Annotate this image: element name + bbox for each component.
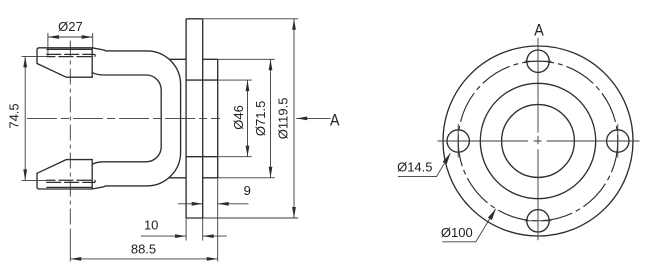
dim Ø27 right extension bbox=[92, 33, 94, 48]
hub bottom edge (Ø71.5) bbox=[203, 177, 218, 179]
dim 10 left segment bbox=[141, 235, 186, 237]
extension hub right edge down bbox=[217, 178, 219, 262]
dim Ø71.5 bottom extension bbox=[218, 177, 275, 179]
dim 9 left segment bbox=[178, 203, 203, 205]
bottom prong upper chamfer and boss top edge bbox=[37, 160, 92, 174]
dim 10 right segment bbox=[203, 235, 227, 237]
vertical bore centerline bbox=[69, 41, 71, 232]
svg-text:10: 10 bbox=[144, 218, 158, 233]
arrow 9 left bbox=[192, 202, 203, 206]
arrow Ø46 bottom bbox=[246, 146, 250, 157]
dim Ø119.5 top extension bbox=[203, 18, 299, 20]
top prong bore slot lines bbox=[46, 54, 95, 56]
arrow 74.5 top bbox=[23, 56, 27, 67]
svg-text:88.5: 88.5 bbox=[131, 242, 156, 257]
leader Ø14.5 bbox=[398, 153, 450, 176]
dim 9 right segment bbox=[218, 203, 249, 205]
arrow 10 left bbox=[175, 234, 186, 238]
arrow Ø27 left bbox=[48, 35, 59, 39]
right hole vertical tick bbox=[617, 124, 619, 158]
dim Ø27 left extension bbox=[47, 33, 49, 57]
dim Ø46 top extension bbox=[218, 79, 252, 81]
yoke inner contour (arm inner edges and inner bend) bbox=[92, 73, 161, 165]
arrow Ø71.5 bottom bbox=[269, 167, 273, 178]
flange plate top edge bbox=[186, 18, 203, 20]
bore circle Ø46 bbox=[502, 105, 575, 178]
Ø46 top silhouette line bbox=[186, 79, 218, 81]
extension plate left edge down bbox=[185, 218, 187, 241]
arrow leader Ø100 bbox=[488, 209, 496, 221]
svg-text:74.5: 74.5 bbox=[6, 103, 21, 128]
yoke outer contour (top prong, arm bend, bottom prong) bbox=[37, 48, 181, 189]
outer flange circle Ø119.5 bbox=[443, 46, 633, 236]
dim Ø71.5 line bbox=[270, 59, 272, 178]
arrow Ø46 top bbox=[246, 80, 250, 91]
dim Ø46 line bbox=[247, 80, 249, 157]
hub top edge (Ø71.5) bbox=[203, 58, 218, 60]
svg-text:Ø14.5: Ø14.5 bbox=[397, 159, 432, 174]
svg-text:9: 9 bbox=[244, 183, 251, 198]
svg-text:A: A bbox=[534, 20, 544, 39]
bottom prong boss right face bbox=[91, 160, 93, 189]
arrow Ø27 right bbox=[82, 35, 93, 39]
bottom prong bore slot lines bbox=[46, 180, 95, 182]
hub left silhouette top (Ø71.5 behind arm) bbox=[169, 58, 186, 60]
dim 74.5 line bbox=[24, 56, 26, 180]
right view vertical centerline bbox=[537, 38, 539, 241]
centerlines of left view bbox=[27, 41, 220, 232]
bolt circle Ø100 dashed bbox=[458, 61, 618, 221]
arrow 10 right bbox=[203, 234, 214, 238]
arrow section A bbox=[296, 117, 307, 121]
extension bore centerline down bbox=[69, 231, 71, 262]
arrow leader Ø14.5 bbox=[443, 153, 451, 165]
top prong bearing cup inner edge line bbox=[46, 48, 92, 50]
arrowheads bbox=[23, 19, 307, 261]
arrow Ø119.5 top bbox=[292, 19, 296, 30]
svg-text:Ø100: Ø100 bbox=[441, 225, 473, 240]
svg-text:Ø27: Ø27 bbox=[58, 19, 83, 34]
extension plate right edge down bbox=[202, 218, 204, 241]
hub right face bbox=[217, 59, 219, 178]
Ø46 bottom silhouette line bbox=[186, 156, 218, 158]
top prong lower chamfer and boss bottom edge bbox=[37, 64, 92, 78]
dim Ø46 bottom extension bbox=[218, 156, 252, 158]
right view horizontal centerline bbox=[438, 140, 640, 142]
top prong boss right face bbox=[91, 48, 93, 77]
svg-text:Ø119.5: Ø119.5 bbox=[276, 98, 291, 140]
flange plate bottom edge bbox=[186, 217, 203, 219]
dim Ø119.5 bottom extension bbox=[203, 217, 299, 219]
top hole horizontal tick bbox=[525, 60, 552, 62]
dimension and extension lines of left view bbox=[22, 19, 331, 262]
leader Ø100 bbox=[442, 209, 495, 242]
bolt hole right Ø14.5 bbox=[607, 130, 629, 152]
horizontal centerline bbox=[27, 117, 220, 119]
dim Ø119.5 line bbox=[293, 19, 295, 218]
left hole vertical tick bbox=[457, 124, 459, 158]
svg-text:A: A bbox=[330, 110, 340, 129]
dim 74.5 bottom extension bbox=[22, 179, 47, 181]
bottom prong bearing cup inner edge line bbox=[46, 186, 92, 188]
dimension texts of left view bbox=[6, 19, 340, 257]
bottom hole horizontal tick bbox=[525, 220, 552, 222]
dim Ø27 line bbox=[48, 36, 93, 38]
bolt hole bottom Ø14.5 bbox=[527, 210, 549, 232]
bolt hole top Ø14.5 bbox=[527, 50, 549, 72]
flange plate right edge bbox=[202, 19, 204, 218]
hub left silhouette bottom (Ø71.5 behind arm) bbox=[169, 177, 186, 179]
flange plate left edge bbox=[185, 19, 187, 218]
dim Ø71.5 top extension bbox=[218, 58, 275, 60]
svg-text:Ø46: Ø46 bbox=[231, 105, 246, 130]
arrow 88.5 left bbox=[70, 257, 81, 261]
arrow 74.5 bottom bbox=[23, 169, 27, 180]
svg-text:Ø71.5: Ø71.5 bbox=[253, 101, 268, 136]
dim 88.5 line bbox=[70, 258, 217, 260]
arrow 88.5 right bbox=[207, 257, 218, 261]
section arrow A line bbox=[296, 117, 330, 119]
dim 74.5 top extension bbox=[22, 55, 47, 57]
arrow 9 right bbox=[218, 202, 229, 206]
arrow Ø119.5 bottom bbox=[292, 207, 296, 218]
hub circle Ø71.5 bbox=[480, 83, 595, 198]
bolt hole left Ø14.5 bbox=[447, 130, 469, 152]
arrow Ø71.5 top bbox=[269, 59, 273, 70]
